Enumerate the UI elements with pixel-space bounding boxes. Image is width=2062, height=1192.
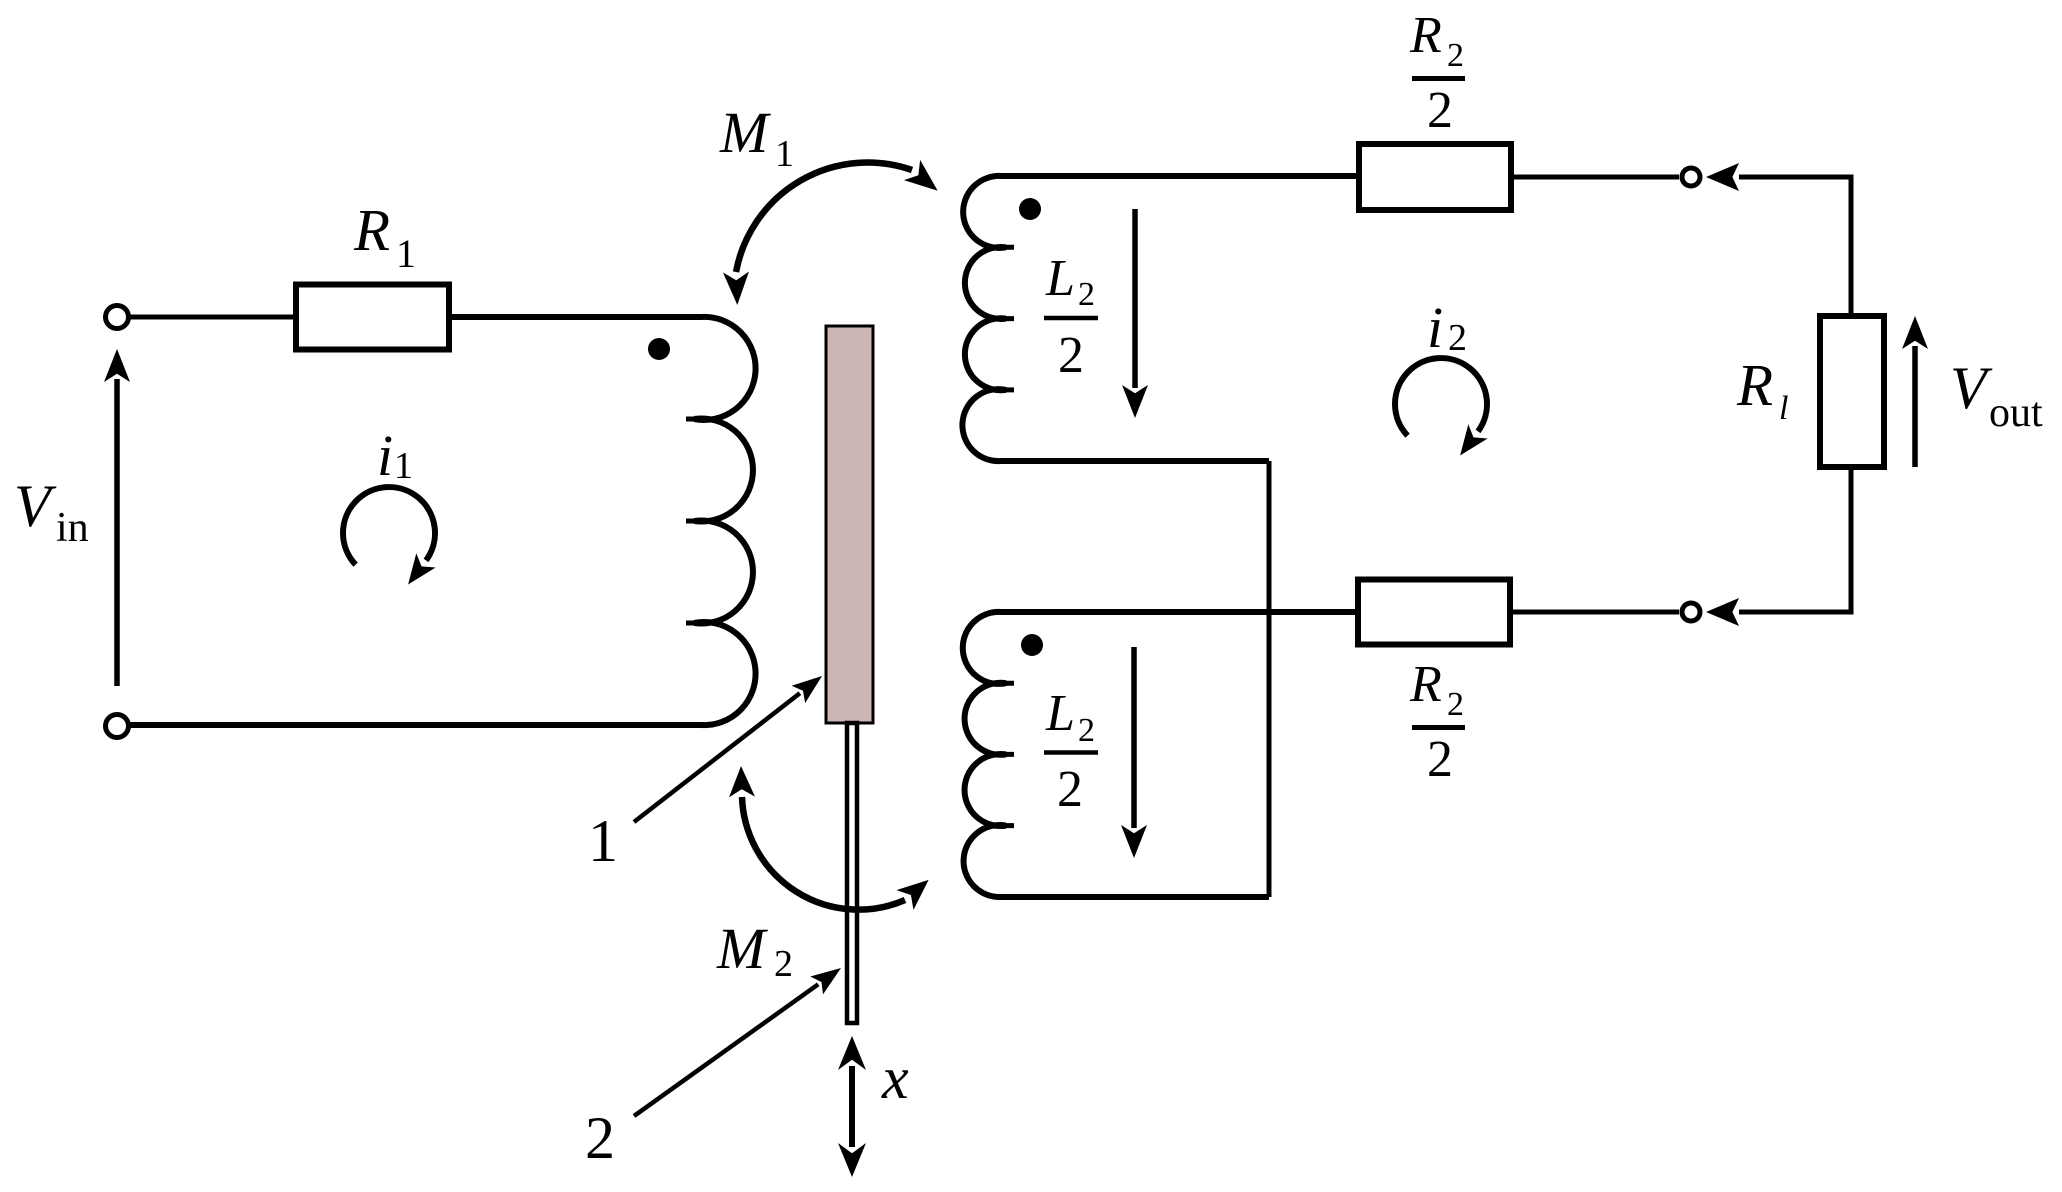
svg-text:V: V [14, 473, 57, 539]
svg-text:2: 2 [1427, 82, 1453, 139]
svg-text:2: 2 [585, 1105, 615, 1171]
svg-text:L: L [1045, 250, 1075, 307]
svg-text:R: R [1736, 352, 1773, 418]
svg-text:i: i [1427, 295, 1443, 360]
svg-text:1: 1 [775, 133, 794, 175]
svg-text:in: in [56, 505, 89, 551]
svg-text:2: 2 [1447, 686, 1464, 723]
svg-text:1: 1 [588, 808, 618, 874]
svg-text:out: out [1989, 390, 2043, 436]
svg-text:l: l [1779, 390, 1788, 427]
svg-text:2: 2 [1427, 731, 1453, 788]
svg-text:2: 2 [1448, 317, 1467, 359]
svg-text:M: M [716, 916, 768, 981]
svg-text:2: 2 [1057, 761, 1083, 818]
svg-text:2: 2 [1058, 327, 1084, 384]
svg-text:R: R [1409, 656, 1442, 713]
svg-text:R: R [353, 197, 390, 263]
svg-text:M: M [719, 100, 771, 165]
svg-text:2: 2 [1078, 276, 1095, 313]
svg-text:2: 2 [774, 943, 793, 985]
svg-text:L: L [1045, 685, 1075, 742]
svg-text:1: 1 [396, 231, 416, 276]
svg-text:x: x [881, 1045, 909, 1111]
svg-text:2: 2 [1447, 37, 1464, 74]
svg-text:R: R [1409, 7, 1442, 64]
svg-text:2: 2 [1078, 712, 1095, 749]
svg-text:i: i [377, 423, 393, 488]
svg-text:1: 1 [394, 445, 413, 487]
svg-text:V: V [1950, 355, 1993, 421]
